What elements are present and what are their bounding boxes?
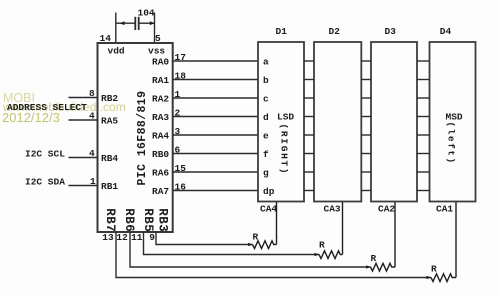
svg-text:CA2: CA2 (378, 204, 395, 215)
svg-text:d: d (263, 112, 269, 123)
svg-text:R: R (371, 253, 377, 264)
svg-text:16: 16 (175, 182, 187, 193)
wire CA2 up (394, 202, 396, 268)
svg-text:15: 15 (175, 163, 187, 174)
wire CA4 up (276, 202, 278, 245)
svg-text:2: 2 (175, 108, 181, 119)
wire RB5 down (144, 232, 320, 255)
svg-text:RB6: RB6 (122, 208, 136, 232)
wire RB6 down (130, 232, 371, 267)
wire RA7 to dp (173, 190, 258, 192)
svg-text:CA3: CA3 (324, 204, 341, 215)
cap arrow right (150, 21, 155, 25)
svg-text:12: 12 (116, 232, 128, 243)
wire RB4 I2C SCL (69, 157, 98, 159)
wire RA0 to a (173, 60, 258, 62)
wire cap left (116, 22, 135, 24)
svg-text:RA3: RA3 (152, 112, 169, 123)
svg-text:CA1: CA1 (436, 204, 453, 215)
svg-text:RB0: RB0 (152, 149, 169, 160)
svg-text:RA5: RA5 (101, 116, 118, 127)
cap arrow left (120, 21, 125, 25)
wire CA3 up (342, 202, 344, 255)
svg-text:R: R (253, 232, 259, 243)
rungs D3-D4 (417, 60, 430, 62)
svg-text:(left): (left) (446, 122, 457, 165)
svg-text:vdd: vdd (108, 46, 125, 57)
wire RA5 pin4 (69, 119, 98, 121)
wire RB2 pin8 (69, 97, 98, 99)
svg-text:RB1: RB1 (101, 181, 118, 192)
display D4 body (430, 42, 476, 202)
resistor R1 (253, 202, 277, 249)
svg-text:vss: vss (148, 46, 165, 57)
rungs D1-D2 (304, 60, 314, 62)
svg-text:dp: dp (263, 186, 275, 197)
svg-text:17: 17 (175, 52, 187, 63)
svg-text:8: 8 (89, 88, 95, 99)
svg-text:11: 11 (131, 232, 143, 243)
svg-text:4: 4 (89, 111, 95, 122)
svg-text:RA4: RA4 (152, 131, 169, 142)
svg-text:RA1: RA1 (152, 75, 169, 86)
svg-text:RB3: RB3 (156, 208, 170, 232)
svg-text:D3: D3 (385, 26, 397, 37)
svg-text:f: f (263, 149, 269, 160)
resistor R4 (431, 202, 456, 282)
svg-text:RA7: RA7 (152, 186, 169, 197)
svg-text:e: e (263, 131, 269, 142)
svg-text:1: 1 (175, 89, 181, 100)
svg-text:9: 9 (149, 232, 155, 243)
wire vss vertical (154, 13, 156, 44)
display D3 body (371, 42, 417, 202)
wire CA1 up (455, 202, 457, 278)
wire RA2 to c (173, 97, 258, 99)
svg-text:I2C SDA: I2C SDA (25, 177, 65, 188)
capacitor C1 plates (134, 17, 136, 30)
svg-text:(RIGHT): (RIGHT) (279, 124, 290, 176)
svg-text:6: 6 (175, 145, 181, 156)
svg-text:c: c (263, 94, 269, 105)
svg-text:ADDRESS SELECT: ADDRESS SELECT (7, 102, 87, 113)
svg-text:RA6: RA6 (152, 168, 169, 179)
svg-text:a: a (263, 57, 269, 68)
display D1 body (258, 42, 304, 202)
wire RA6 to g (173, 171, 258, 173)
wire RB3 down (156, 232, 253, 245)
display D2 body (314, 42, 361, 202)
svg-text:D4: D4 (440, 26, 452, 37)
PIC chip U1 body (98, 43, 173, 232)
resistor R2 (319, 202, 343, 259)
svg-text:R: R (431, 264, 437, 275)
svg-text:CA4: CA4 (260, 204, 277, 215)
svg-text:104: 104 (138, 8, 155, 19)
svg-text:D1: D1 (276, 26, 288, 37)
svg-text:LSD: LSD (277, 112, 294, 123)
svg-text:RB4: RB4 (101, 153, 118, 164)
svg-text:RB2: RB2 (101, 93, 118, 104)
svg-text:b: b (263, 75, 269, 86)
svg-text:PIC 16F88/819: PIC 16F88/819 (136, 91, 149, 186)
wire RA1 to b (173, 79, 258, 81)
wire RB7 down (116, 232, 431, 278)
svg-text:R: R (319, 240, 325, 251)
svg-text:RB5: RB5 (141, 208, 155, 232)
svg-text:RA2: RA2 (152, 94, 169, 105)
wire RA4 to e (173, 134, 258, 136)
svg-text:RB7: RB7 (103, 208, 117, 232)
wire cap right (139, 22, 155, 24)
svg-text:18: 18 (175, 71, 187, 82)
svg-text:3: 3 (175, 126, 181, 137)
svg-text:RA0: RA0 (152, 57, 169, 68)
wire RB0 to f (173, 153, 258, 155)
wire RB1 I2C SDA (69, 185, 98, 187)
svg-text:I2C SCL: I2C SCL (25, 149, 65, 160)
resistor R3 (371, 202, 396, 272)
svg-text:1: 1 (90, 176, 96, 187)
svg-text:g: g (263, 168, 269, 179)
wire RA3 to d (173, 116, 258, 118)
rungs D2-D3 (361, 60, 371, 62)
svg-text:D2: D2 (329, 26, 341, 37)
svg-text:4: 4 (89, 148, 95, 159)
wire vdd vertical (115, 13, 117, 44)
svg-text:13: 13 (102, 232, 114, 243)
